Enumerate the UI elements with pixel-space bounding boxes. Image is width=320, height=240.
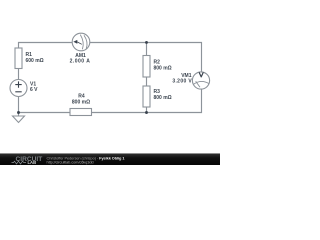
resistor R2 <box>143 56 150 78</box>
svg-text:2.000 A: 2.000 A <box>70 59 91 65</box>
voltmeter VM1 <box>192 72 209 89</box>
svg-text:3.200 V: 3.200 V <box>172 79 192 85</box>
svg-text:800 mΩ: 800 mΩ <box>154 95 172 101</box>
svg-text:http://circuitlab.com/c6kq3dd: http://circuitlab.com/c6kq3dd <box>47 160 94 165</box>
wire ammeter to top-right corner down to voltmeter <box>90 43 202 73</box>
footer bar <box>0 153 220 154</box>
wire V1 bottom to bottom rail <box>18 97 20 113</box>
wire R1 bottom to V1 top <box>18 69 20 80</box>
wire R4 to bottom-right corner up to voltmeter <box>92 89 202 113</box>
svg-text:R2: R2 <box>154 59 161 65</box>
resistor R4 <box>70 109 92 116</box>
junction node top (R2 tap) <box>145 41 148 44</box>
svg-text:6 V: 6 V <box>30 87 38 93</box>
resistor R3 <box>143 86 150 107</box>
logo resistor zigzag <box>12 161 27 164</box>
junction node bottom (R3 tap) <box>145 111 148 114</box>
wire R2 to R3 <box>146 77 148 86</box>
resistor R1 <box>15 48 22 69</box>
svg-text:LAB: LAB <box>28 160 37 165</box>
wire top-left corner from R1 up and right to ammeter <box>19 43 73 49</box>
junction node bottom-left (ground) <box>17 111 20 114</box>
wire ground stub <box>18 113 20 117</box>
voltage source V1 <box>10 80 27 97</box>
wire R3 bottom lead <box>146 107 148 113</box>
ground <box>13 116 25 123</box>
ammeter AM1 <box>72 33 90 51</box>
wire R2 branch top lead <box>146 43 148 56</box>
svg-text:800 mΩ: 800 mΩ <box>72 100 90 106</box>
svg-text:800 mΩ: 800 mΩ <box>154 66 172 72</box>
wire bottom rail left to R4 <box>19 112 71 114</box>
svg-text:600 mΩ: 600 mΩ <box>26 58 44 64</box>
